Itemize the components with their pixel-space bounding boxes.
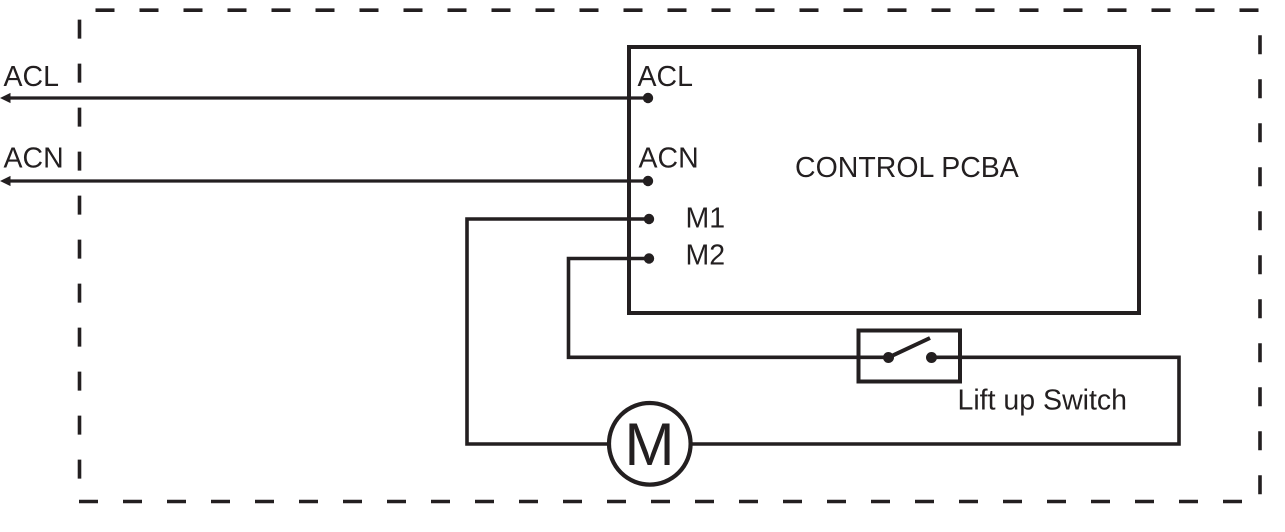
wire M2 to switch (569, 259, 889, 358)
enclosure dashed border top (80, 8, 1261, 12)
pin ACN dot (643, 176, 653, 186)
svg-text:Lift up Switch: Lift up Switch (958, 385, 1128, 417)
pin ACL dot (643, 93, 653, 103)
switch S1 right contact dot (926, 352, 937, 363)
svg-text:ACN: ACN (639, 143, 699, 175)
wire switch to motor right side (689, 357, 1179, 444)
svg-text:ACL: ACL (638, 61, 693, 93)
switch S1 lever (889, 338, 931, 358)
arrowhead ACL (0, 93, 11, 103)
enclosure dashed border right (1258, 10, 1262, 501)
svg-text:M2: M2 (686, 240, 726, 272)
arrowhead ACN (0, 176, 11, 186)
wire ACN (8, 179, 648, 182)
switch S1 left wire stub (857, 355, 889, 359)
switch S1 box (859, 331, 961, 382)
svg-text:ACN: ACN (4, 143, 64, 175)
pin M2 dot (644, 253, 654, 263)
control PCBA box U1 (629, 47, 1139, 313)
pin M1 dot (644, 214, 654, 224)
switch S1 left contact dot (883, 352, 894, 363)
motor M circle (609, 403, 691, 485)
enclosure dashed border bottom (79, 500, 1260, 504)
enclosure dashed border left (78, 10, 82, 502)
wire ACL (8, 96, 648, 99)
svg-text:M: M (625, 411, 675, 478)
svg-text:CONTROL PCBA: CONTROL PCBA (795, 152, 1019, 184)
wire M1 to motor (467, 219, 649, 444)
svg-text:ACL: ACL (4, 61, 59, 93)
svg-text:M1: M1 (686, 203, 726, 235)
